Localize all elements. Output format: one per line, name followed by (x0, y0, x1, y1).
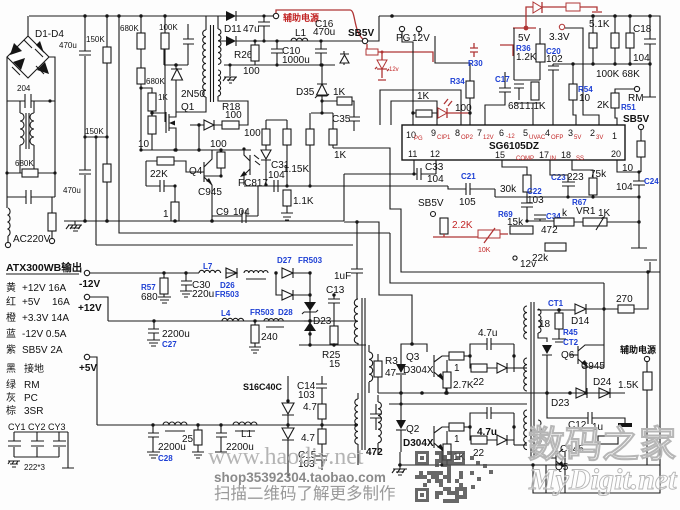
svg-text:灰: 灰 (6, 391, 16, 404)
SCR S16C40C (243, 376, 294, 478)
long bus y233 (119, 16, 390, 233)
svg-text:C33: C33 (425, 162, 444, 173)
diode D27 (277, 256, 323, 278)
svg-text:10: 10 (579, 93, 591, 104)
svg-text:105: 105 (459, 197, 476, 208)
optocoupler FC817 (238, 147, 268, 189)
svg-text:1K: 1K (417, 91, 430, 102)
diode D26 FR503 (215, 268, 240, 299)
common-mode choke (20, 101, 34, 173)
capacitor 1uF (334, 220, 363, 299)
svg-text:FR503: FR503 (250, 308, 275, 317)
svg-text:D23: D23 (313, 316, 332, 327)
svg-text:红: 红 (6, 295, 16, 308)
capacitor C9 (212, 186, 258, 223)
capacitor (X cap) (7, 173, 55, 204)
capacitor C17 (485, 72, 511, 125)
red wire to SB5V (276, 10, 364, 40)
svg-text:+3.3V 14A: +3.3V 14A (22, 313, 69, 324)
svg-text:3: 3 (568, 128, 573, 138)
resistor 1.5K (618, 372, 652, 465)
capacitor 4.7u (Q2) (470, 407, 514, 438)
svg-text:RM: RM (24, 380, 40, 391)
svg-text:100: 100 (243, 66, 260, 77)
svg-text:蓝: 蓝 (6, 328, 16, 340)
capacitor C23 223 (550, 160, 584, 197)
svg-text:+12V: +12V (78, 303, 102, 314)
svg-text:100: 100 (210, 139, 227, 150)
svg-text:L7: L7 (203, 262, 213, 271)
svg-text:D24: D24 (593, 377, 612, 388)
resistor 680K chain (120, 16, 165, 150)
svg-text:2.7K: 2.7K (453, 380, 474, 391)
resistor 100 (opto) (244, 120, 271, 187)
svg-text:CY1 CY2 CY3: CY1 CY2 CY3 (8, 422, 66, 432)
node 12v / 22k (513, 253, 549, 270)
svg-text:104: 104 (427, 174, 444, 185)
svg-text:1: 1 (612, 131, 617, 141)
svg-text:PG: PG (414, 136, 423, 142)
resistor 22 + diode (Q2) (470, 413, 527, 459)
svg-text:扫描二维码了解更多制作: 扫描二维码了解更多制作 (214, 484, 396, 503)
svg-text:2200u: 2200u (162, 329, 190, 340)
svg-text:棕: 棕 (6, 404, 16, 417)
svg-text:D11: D11 (224, 24, 242, 35)
svg-text:7: 7 (477, 128, 482, 138)
diode (T3 lower) (538, 333, 552, 393)
svg-text:接地: 接地 (24, 362, 44, 375)
diode D11 (218, 11, 273, 35)
resistor 100K (startup) (159, 16, 178, 122)
svg-text:SB5V: SB5V (623, 114, 649, 125)
svg-text:9: 9 (431, 128, 436, 138)
capacitor C21 (448, 172, 495, 208)
wire -12V rail (90, 272, 199, 274)
svg-text:shop35392304.taobao.com: shop35392304.taobao.com (214, 470, 386, 485)
svg-text:L4: L4 (221, 309, 231, 318)
svg-text:3.3V: 3.3V (549, 32, 570, 43)
svg-text:472: 472 (541, 225, 558, 236)
ground (secondary) (392, 452, 407, 475)
svg-text:D26: D26 (220, 281, 235, 290)
svg-text:1uF: 1uF (334, 271, 351, 282)
AC220V inductor (5, 197, 50, 248)
diode pair D24 (551, 377, 612, 409)
svg-text:22K: 22K (150, 169, 168, 180)
svg-text:68K: 68K (622, 69, 640, 80)
resistor 1 (Q4) (163, 186, 179, 223)
svg-text:Q3: Q3 (406, 352, 420, 363)
svg-text:1: 1 (163, 209, 169, 220)
top bus (right) (379, 16, 660, 465)
terminal -12V (84, 270, 89, 275)
svg-text:1: 1 (454, 363, 460, 374)
svg-text:4: 4 (545, 128, 550, 138)
resistor R57 680 (141, 273, 171, 303)
resistor 100K (596, 16, 620, 80)
svg-text:5V: 5V (574, 135, 581, 141)
capacitor 681 + resistor 1.1K (508, 80, 546, 125)
diode D14 (571, 304, 618, 327)
transistor Q4 (189, 150, 222, 223)
svg-text:辅助电源: 辅助电源 (620, 344, 656, 355)
capacitor R30 (red) (468, 43, 513, 68)
svg-text:103: 103 (298, 390, 315, 401)
svg-text:15: 15 (495, 150, 505, 160)
svg-text:17: 17 (539, 150, 549, 160)
resistor R36 1.2K (516, 28, 545, 80)
capacitor (startup) (164, 24, 194, 65)
capacitor C14 103 (297, 376, 327, 404)
transistor Q3 (396, 342, 449, 393)
svg-text:CT2: CT2 (563, 338, 579, 347)
svg-text:100: 100 (244, 128, 261, 139)
svg-text:COMP: COMP (516, 156, 534, 162)
svg-text:100: 100 (225, 110, 242, 121)
svg-text:10: 10 (138, 139, 150, 150)
svg-text:IN: IN (550, 156, 556, 162)
zener 12v (red) (375, 51, 399, 81)
QR code (415, 451, 493, 503)
pot VR1 1K (554, 197, 657, 272)
svg-text:1.1K: 1.1K (293, 196, 314, 207)
svg-text:OP2: OP2 (461, 135, 474, 141)
wire feedback C (333, 148, 660, 272)
wire D14 riser (582, 283, 604, 367)
terminal aux 辅助电源 (273, 13, 278, 18)
capacitors CY1 CY2 CY3 (8, 422, 74, 472)
svg-text:104: 104 (268, 170, 285, 181)
svg-text:12V: 12V (412, 33, 430, 44)
capacitor 470u (59, 16, 91, 221)
svg-text:3V: 3V (596, 135, 603, 141)
svg-text:D23: D23 (551, 398, 570, 409)
svg-text:R3: R3 (385, 356, 398, 367)
resistor R26 (234, 39, 260, 77)
bus y493 (533, 452, 660, 493)
svg-text:3SR: 3SR (24, 406, 43, 417)
resistor 270 (616, 272, 648, 313)
svg-text:2: 2 (590, 128, 595, 138)
capacitor C27 2200u (147, 321, 190, 349)
svg-text:C35: C35 (332, 114, 351, 125)
svg-text:240: 240 (261, 332, 278, 343)
bus y393 (378, 392, 625, 394)
capacitor C20 102 (546, 47, 563, 125)
resistor 1.1K (281, 184, 314, 220)
svg-text:222*3: 222*3 (24, 463, 45, 472)
svg-text:1K: 1K (158, 93, 168, 102)
transistor Q6 (561, 345, 605, 393)
resistor (discharge) (48, 197, 56, 244)
svg-text:472: 472 (366, 447, 383, 458)
svg-text:www.haodiy.net: www.haodiy.net (208, 444, 364, 470)
svg-text:OFP: OFP (551, 135, 563, 141)
svg-text:+5V: +5V (22, 297, 40, 308)
svg-text:20: 20 (611, 149, 621, 159)
svg-text:-12V 0.5A: -12V 0.5A (22, 329, 67, 340)
resistor R3 47 (374, 354, 398, 393)
svg-text:1.5K: 1.5K (618, 380, 639, 391)
svg-text:11: 11 (408, 149, 417, 159)
capacitor (22K) (146, 161, 177, 192)
svg-text:12: 12 (430, 149, 440, 159)
svg-text:C17: C17 (495, 75, 510, 84)
svg-text:5.1K: 5.1K (589, 19, 610, 30)
capacitor C15 103 (298, 444, 327, 470)
svg-text:104: 104 (616, 182, 633, 193)
svg-text:黑: 黑 (6, 363, 16, 375)
capacitor C16 (313, 19, 335, 67)
capacitor C10 (271, 39, 310, 66)
inductor L7 (199, 262, 221, 273)
svg-text:8: 8 (455, 128, 460, 138)
capacitor C34 472 (525, 212, 561, 236)
svg-text:数码之家: 数码之家 (528, 424, 676, 465)
terminal +12V (84, 294, 89, 299)
svg-text:紫: 紫 (6, 344, 16, 356)
terminal SB5V (right) (623, 114, 649, 172)
svg-text:D304X: D304X (403, 365, 434, 376)
svg-text:680K: 680K (15, 159, 34, 168)
terminal 12V (416, 26, 421, 31)
svg-text:D28: D28 (278, 308, 293, 317)
svg-text:4.7u: 4.7u (478, 328, 497, 339)
svg-text:18: 18 (539, 319, 551, 330)
capacitor C33 (344, 160, 444, 221)
svg-text:D35: D35 (296, 87, 315, 98)
svg-text:1: 1 (454, 434, 460, 445)
ground (aux) (223, 63, 237, 83)
node SB5V + resistor 2.2K + pot 10K (red) (418, 198, 508, 254)
aux return wire (224, 64, 335, 66)
svg-text:PC: PC (24, 393, 38, 404)
svg-text:Q1: Q1 (181, 102, 195, 113)
bus y465 (398, 464, 660, 466)
snubber C13 + R25 (322, 285, 345, 370)
svg-text:ATX300WB输出: ATX300WB输出 (6, 261, 82, 274)
diode D35 (296, 51, 349, 113)
svg-text:22k: 22k (532, 253, 549, 264)
svg-text:C18: C18 (633, 24, 652, 35)
svg-text:220u: 220u (192, 289, 214, 300)
resistor 4.7 (upper) (303, 402, 326, 425)
inductor (5V rail 1) (163, 422, 187, 431)
svg-text:D14: D14 (571, 316, 590, 327)
winding CT1 + resistor 18 R45 (538, 299, 579, 347)
resistor 680K (input) (5, 101, 56, 197)
svg-text:104: 104 (633, 53, 650, 64)
inductor (after D26) (244, 271, 268, 279)
resistor 4.7 (lower) (301, 425, 326, 444)
inductor L1 (aux) (291, 28, 308, 41)
wire feedback A (344, 222, 412, 344)
resistor 1 (Q3) (443, 352, 474, 395)
diode (aux 12V) (218, 36, 362, 46)
resistor 240 (249, 321, 278, 353)
terminal +5V (84, 354, 89, 359)
svg-text:470u: 470u (59, 41, 77, 50)
resistor 150K (85, 16, 111, 221)
svg-text:4.7: 4.7 (303, 402, 317, 413)
capacitor C18 (633, 16, 656, 97)
ATX output legend (6, 261, 82, 417)
svg-text:270: 270 (616, 294, 633, 305)
wire feedback B (390, 233, 604, 283)
terminal 3.3V (549, 24, 599, 125)
svg-text:k: k (562, 208, 568, 219)
svg-text:C945: C945 (198, 187, 222, 198)
primary ground bus (64, 220, 344, 222)
junction dots top bus (83, 14, 86, 17)
辅助电源 terminal (right) (620, 344, 656, 372)
transformer T1 (176, 16, 224, 112)
transformer T3 (524, 302, 541, 458)
capacitor C28 2200u (147, 425, 186, 463)
svg-text:FR503: FR503 (215, 290, 240, 299)
resistor 30k (500, 160, 531, 203)
svg-text:C27: C27 (162, 340, 177, 349)
svg-text:D1-D4: D1-D4 (35, 29, 64, 40)
svg-text:47: 47 (385, 368, 397, 379)
svg-text:-12V: -12V (79, 279, 100, 290)
resistor 100 (Q4) (204, 139, 227, 178)
resistor 1K (gate) (141, 88, 168, 120)
svg-text:204: 204 (17, 84, 31, 93)
zener pair D23 (302, 302, 332, 336)
svg-text:+12V 16A: +12V 16A (22, 283, 67, 294)
top right rail (553, 63, 650, 65)
svg-text:1.1K: 1.1K (525, 101, 546, 112)
IC U1 SG6105DZ (402, 125, 625, 162)
svg-text:橙: 橙 (6, 311, 16, 324)
loop wires (PG opto) (380, 90, 461, 125)
resistor 1 (Q2) (443, 423, 472, 465)
svg-text:黄: 黄 (6, 281, 16, 294)
capacitor C31 (244, 160, 448, 192)
svg-text:1000u: 1000u (282, 55, 310, 66)
svg-text:C23: C23 (551, 173, 566, 182)
svg-text:R45: R45 (563, 328, 578, 337)
long bus y245 (96, 244, 353, 246)
svg-text:681: 681 (508, 101, 525, 112)
inductor L1 (5V) (233, 422, 257, 440)
capacitor 472 (T2) (366, 404, 383, 458)
svg-text:1K: 1K (334, 150, 347, 161)
svg-text:5V: 5V (518, 33, 531, 44)
svg-text:C24: C24 (644, 177, 659, 186)
drive node line (141, 149, 251, 151)
node line below IC (495, 196, 639, 198)
svg-text:CT1: CT1 (548, 299, 564, 308)
resistor 1K + LED (PG) (411, 91, 472, 118)
svg-text:470u: 470u (313, 27, 335, 38)
svg-text:R26: R26 (234, 50, 253, 61)
svg-text:680K: 680K (146, 77, 165, 86)
resistor 5.1K (589, 16, 610, 64)
svg-text:2.2K: 2.2K (452, 220, 473, 231)
svg-text:5: 5 (523, 128, 528, 138)
svg-text:CIP1: CIP1 (437, 135, 451, 141)
capacitor 4.7u (Q3) (470, 328, 514, 356)
diode + resistor R18 (190, 101, 248, 152)
svg-text:C21: C21 (461, 172, 476, 181)
svg-text:SB5V: SB5V (418, 198, 444, 209)
svg-text:10: 10 (622, 163, 634, 174)
svg-text:150K: 150K (86, 35, 105, 44)
top primary bus (29, 15, 219, 17)
resistor (Q5 base) (598, 436, 618, 444)
inductor L4 (221, 309, 244, 321)
diode D28 pair lower (276, 271, 312, 345)
resistor 10 (138, 111, 156, 150)
resistor 1K (D35) (266, 87, 360, 131)
svg-text:FC817: FC817 (238, 178, 268, 189)
resistor row (feedback dividers) (283, 120, 347, 186)
svg-text:FR503: FR503 (298, 256, 323, 265)
svg-text:18: 18 (561, 150, 571, 160)
terminal RM + resistor 2K R51 (597, 86, 644, 125)
capacitor C30 220u (180, 273, 214, 300)
red feed wire + resistor (366, 44, 433, 62)
svg-text:AC220V: AC220V (13, 234, 51, 245)
svg-text:15: 15 (329, 359, 341, 370)
wire +12V rail (90, 297, 356, 321)
bridge rectifier D1-D4 (7, 16, 64, 78)
svg-text:6: 6 (499, 128, 504, 138)
ground (primary) (66, 221, 82, 231)
svg-text:1.2K: 1.2K (516, 52, 537, 63)
svg-text:100K: 100K (596, 69, 620, 80)
transformer T2 (354, 298, 381, 465)
resistor 75k (572, 160, 607, 197)
svg-text:470u: 470u (63, 186, 81, 195)
svg-text:1K: 1K (333, 87, 346, 98)
svg-text:150K: 150K (85, 127, 104, 136)
svg-text:SB5V 2A: SB5V 2A (22, 345, 63, 356)
svg-text:SS: SS (576, 156, 584, 162)
svg-text:Q4: Q4 (189, 166, 203, 177)
zener 2N60 gate (171, 63, 205, 113)
capacitor 204 (7, 57, 55, 108)
svg-text:L1: L1 (295, 28, 307, 39)
svg-text:-12: -12 (506, 134, 515, 140)
svg-text:22: 22 (473, 377, 485, 388)
node line y345 (299, 344, 366, 346)
capacitor C12 1u (547, 393, 632, 433)
svg-text:R51: R51 (621, 103, 636, 112)
svg-text:R57: R57 (141, 283, 156, 292)
svg-text:C28: C28 (158, 454, 173, 463)
svg-text:47u: 47u (243, 24, 260, 35)
red 5V feed (513, 2, 602, 80)
svg-text:2K: 2K (597, 100, 610, 111)
svg-text:4.7: 4.7 (301, 433, 315, 444)
svg-text:辅助电源: 辅助电源 (283, 12, 319, 23)
resistor R34 (450, 77, 474, 125)
capacitor 2200u (5V) (215, 425, 254, 453)
svg-text:10K: 10K (478, 247, 491, 254)
svg-text:22: 22 (473, 448, 485, 459)
transistor Q5 (548, 444, 584, 473)
svg-text:R34: R34 (450, 77, 465, 86)
svg-text:MyDigit.net: MyDigit.net (528, 463, 678, 496)
svg-text:100K: 100K (159, 23, 178, 32)
svg-text:680K: 680K (120, 24, 139, 33)
inductor (after L4) + labels FR503 D28 (250, 308, 293, 327)
terminal PG (399, 26, 404, 31)
svg-text:+5V: +5V (79, 363, 97, 374)
